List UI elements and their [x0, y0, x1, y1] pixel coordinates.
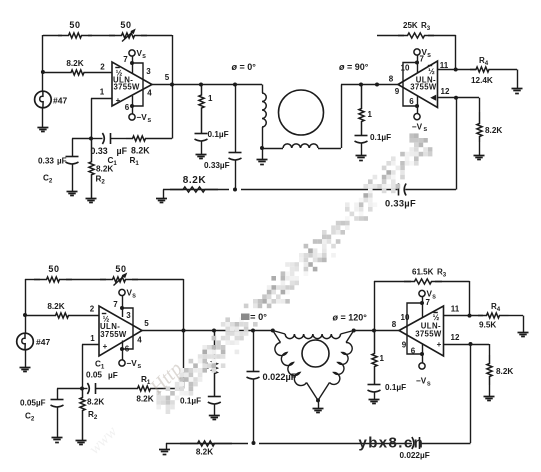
ground left end of rail A: [163, 190, 165, 199]
ground under R2 A: [86, 198, 97, 200]
pins 10-6 bracket D: [407, 303, 422, 354]
svg-text:µF: µF: [57, 157, 67, 166]
potentiometer 50 ohm (top): [109, 33, 147, 38]
pin 12 wire B: [444, 344, 490, 346]
motor M1 winding horizontal: [262, 148, 283, 150]
node at 0.33uF branch: [233, 83, 237, 87]
lamp #47 A: [35, 91, 52, 108]
node junction input: [41, 70, 45, 74]
svg-text:1: 1: [208, 94, 213, 103]
feedback vertical at output B: [183, 279, 185, 389]
capacitor C2 0.33uF A: [66, 156, 79, 158]
motor M2 delta winding left: [273, 331, 281, 343]
svg-text:8.2K: 8.2K: [87, 398, 104, 407]
svg-text:S: S: [427, 381, 431, 387]
resistor R1 8.2K series B: [131, 386, 157, 391]
capacitor 0.1uF C: [208, 396, 221, 398]
svg-text:1: 1: [90, 334, 95, 343]
svg-text:1: 1: [100, 88, 105, 97]
pin 7 lead and Vs supply C: [119, 289, 125, 295]
pin 11 output wire B: [444, 315, 484, 317]
svg-text:−V: −V: [412, 123, 423, 132]
ground left end of rail B: [166, 443, 168, 450]
node 1-ohm branch B: [359, 83, 363, 87]
feedback resistor R3 61.5K: [374, 281, 411, 283]
svg-text:0.1µF: 0.1µF: [385, 383, 406, 392]
ground after R4 B: [523, 316, 525, 332]
ground under 8.2K B: [474, 155, 485, 157]
svg-text:+: +: [103, 342, 108, 351]
ground under lamp bottom: [20, 367, 31, 369]
capacitor 0.1uF A: [195, 133, 208, 135]
svg-text:8.2K: 8.2K: [96, 165, 113, 174]
pin 12 wire: [438, 97, 480, 99]
svg-text:3755W: 3755W: [114, 82, 141, 91]
svg-text:2: 2: [100, 63, 105, 72]
svg-text:S: S: [424, 127, 428, 133]
svg-text:0.1µF: 0.1µF: [370, 133, 391, 142]
wire pin12 to lower rail B: [470, 344, 472, 443]
svg-text:8.2K: 8.2K: [47, 302, 64, 311]
capacitor 0.1uF D: [368, 384, 381, 386]
ground under lamp A: [37, 127, 48, 129]
svg-text:S: S: [432, 294, 436, 300]
capacitor 0.33uF to rail A: [229, 152, 242, 154]
svg-text:S: S: [132, 293, 136, 299]
wire pin 1 lead: [91, 98, 112, 100]
svg-text:µF: µF: [36, 399, 46, 408]
svg-text:12: 12: [451, 333, 460, 342]
wire delta to pin 8 B: [354, 330, 399, 332]
svg-text:6: 6: [125, 345, 130, 354]
wire pin 1 lead bottom: [82, 344, 99, 346]
svg-text:S: S: [142, 54, 146, 60]
svg-text:8.2K: 8.2K: [66, 59, 83, 68]
motor M2 delta winding right: [346, 331, 354, 343]
svg-text:9.5K: 9.5K: [479, 321, 496, 330]
svg-text:0.022µF: 0.022µF: [400, 451, 430, 460]
svg-text:50: 50: [69, 20, 80, 30]
svg-text:7: 7: [123, 55, 128, 64]
wire 0.022uF branch: [253, 331, 255, 372]
ground under 8.2K D: [484, 396, 495, 398]
op-amp U2A ULN-3755W triangle: [99, 306, 142, 356]
pin 6 lead and -Vs supply C: [122, 341, 124, 360]
svg-text:7: 7: [113, 300, 118, 309]
pins 10-6 bracket B: [403, 63, 417, 107]
lower rail circuit B: [166, 443, 248, 445]
svg-text:5: 5: [144, 319, 149, 328]
svg-text:+: +: [437, 340, 442, 349]
svg-text:ø = 90°: ø = 90°: [339, 62, 369, 72]
svg-text:S: S: [148, 118, 152, 124]
wire lamp to ground: [42, 108, 44, 127]
ground under 0.1uF A: [196, 154, 207, 156]
resistor R2 8.2K to ground A: [89, 139, 94, 199]
motor M1 rotor circle: [279, 90, 324, 135]
svg-text:8.2K: 8.2K: [196, 448, 213, 457]
svg-text:6: 6: [409, 97, 414, 106]
pin 7 lead and Vs supply D: [419, 290, 425, 296]
svg-text:9: 9: [402, 341, 407, 350]
feedback vertical at output: [172, 35, 174, 139]
wire 0.33uF coupling branch: [235, 85, 237, 153]
svg-text:S: S: [138, 364, 142, 370]
resistor R4 9.5K: [478, 313, 508, 318]
svg-text:6: 6: [411, 347, 416, 356]
ground under motor M1: [262, 148, 264, 160]
svg-text:7: 7: [426, 298, 431, 307]
svg-text:11: 11: [451, 305, 460, 314]
pin 6 lead and -Vs supply A: [132, 96, 134, 114]
svg-text:ø = 120°: ø = 120°: [333, 313, 368, 323]
svg-text:0.1µF: 0.1µF: [180, 397, 201, 406]
resistor 50 ohm fixed (top left): [58, 33, 92, 38]
svg-text:4: 4: [137, 336, 142, 345]
svg-text:50: 50: [120, 20, 131, 30]
svg-text:#47: #47: [53, 96, 67, 106]
pin 7 lead and Vs supply A: [129, 50, 135, 56]
svg-text:3755W: 3755W: [100, 330, 127, 339]
resistor 1 ohm damping C: [212, 331, 217, 397]
resistor 8.2K input bottom: [25, 313, 99, 318]
svg-text:8.2K: 8.2K: [496, 367, 513, 376]
svg-text:12: 12: [441, 87, 450, 96]
svg-text:11: 11: [440, 61, 449, 70]
svg-text:0.05: 0.05: [20, 399, 36, 408]
pins 3-4 output bracket A: [132, 63, 143, 106]
svg-text:+: +: [116, 96, 121, 105]
node rail junction: [233, 188, 237, 192]
svg-text:0.33: 0.33: [38, 157, 54, 166]
ground under 0.1uF D: [369, 399, 380, 401]
ground under delta motor: [318, 400, 320, 408]
wire C2 branch: [72, 138, 91, 140]
wire motor to pin 8: [341, 85, 343, 149]
svg-text:10: 10: [401, 64, 410, 73]
svg-text:8: 8: [392, 320, 397, 329]
resistor 1 ohm damping B: [359, 85, 364, 136]
pin 7 lead and Vs supply B: [414, 49, 420, 55]
op-amp U2B ULN-3755W triangle mirrored: [399, 306, 444, 356]
resistor R1 8.2K series A: [126, 136, 152, 141]
svg-text:3: 3: [146, 67, 151, 76]
wire lamp to ground B: [25, 350, 27, 367]
capacitor 0.1uF B: [355, 135, 368, 137]
svg-text:5: 5: [165, 73, 170, 82]
ground under C2 bottom: [52, 437, 63, 439]
svg-text:8.2K: 8.2K: [131, 146, 150, 156]
ground under R2 bottom: [76, 440, 87, 442]
svg-text:2: 2: [90, 305, 95, 314]
resistor R2 8.2K bottom: [80, 389, 85, 441]
svg-text:0.33: 0.33: [91, 146, 108, 156]
svg-text:25K: 25K: [403, 21, 418, 30]
svg-text:61.5K: 61.5K: [412, 268, 434, 277]
svg-text:3755W: 3755W: [415, 329, 442, 338]
resistor 1 ohm damping A: [199, 85, 204, 134]
svg-text:µF: µF: [108, 371, 118, 380]
resistor R4 12.4K: [470, 67, 495, 72]
resistor 8.2K rail A: [170, 187, 218, 192]
svg-text:ø = 0°: ø = 0°: [232, 62, 257, 72]
svg-text:9: 9: [395, 87, 400, 96]
wire C2 branch bottom: [57, 388, 82, 390]
motor M2 delta winding top: [271, 329, 275, 333]
svg-text:0.33µF: 0.33µF: [385, 199, 416, 209]
svg-text:8: 8: [389, 75, 394, 84]
capacitor 0.022uF series rail: [412, 437, 414, 449]
resistor 8.2K input A: [43, 70, 112, 75]
svg-text:0.022µF: 0.022µF: [263, 372, 297, 382]
feedback resistor R3 25K: [377, 35, 404, 37]
svg-text:1: 1: [368, 110, 373, 119]
node rail junction B: [252, 441, 256, 445]
lamp #47 bottom: [17, 333, 34, 350]
potentiometer 50 ohm (bottom): [100, 277, 138, 282]
svg-text:8.2K: 8.2K: [485, 126, 502, 135]
svg-text:−V: −V: [127, 359, 138, 368]
svg-text:0.1µF: 0.1µF: [208, 130, 229, 139]
node 0.022uF branch: [251, 329, 255, 333]
resistor 8.2K pin12 bottom: [489, 344, 491, 355]
svg-text:1: 1: [380, 354, 385, 363]
svg-text:12.4K: 12.4K: [471, 76, 493, 85]
lower rail circuit A: [163, 189, 229, 191]
svg-text:6: 6: [125, 103, 130, 112]
svg-text:50: 50: [115, 264, 126, 274]
op-amp U1A ULN-3755W triangle: [112, 62, 152, 106]
pin 5 output wire A: [152, 84, 262, 86]
resistor 8.2K pin12 to ground: [479, 98, 481, 112]
ground under 0.1uF C: [209, 415, 220, 417]
svg-text:−V: −V: [137, 113, 148, 122]
svg-text:0.33µF: 0.33µF: [204, 161, 230, 170]
wire top feedback rail circuit B: [25, 279, 40, 281]
svg-text:0.05: 0.05: [86, 371, 102, 380]
capacitor C2 0.05uF bottom: [51, 399, 64, 401]
pins 3-4 bracket C: [122, 308, 133, 349]
resistor 50 ohm fixed (bottom): [34, 277, 72, 282]
svg-text:−V: −V: [416, 377, 427, 386]
mosaic watermark band: [156, 133, 432, 414]
pin 11 output wire: [438, 69, 477, 71]
capacitor 0.33uF series rail: [398, 184, 400, 196]
svg-text:8.2K: 8.2K: [136, 395, 153, 404]
node R3 and 1-ohm branch D: [372, 329, 376, 333]
wire top feedback rail circuit A: [43, 35, 62, 37]
pin 5 output wire B: [142, 330, 273, 332]
resistor 8.2K rail B: [180, 441, 232, 446]
svg-text:4: 4: [147, 89, 152, 98]
ground under C2 A: [67, 191, 78, 193]
capacitor C1 0.33uF series A: [102, 133, 104, 144]
feedback lower wire C1 R1 bottom: [82, 388, 88, 390]
capacitor 0.022uF shunt: [247, 371, 260, 373]
node R3 feedback B: [375, 83, 379, 87]
svg-text:8.2K: 8.2K: [183, 175, 207, 186]
dark mosaic block over phi label: [241, 314, 250, 321]
pin 6 lead and -Vs supply D: [422, 343, 424, 363]
wire left vertical to lamp B: [25, 279, 27, 333]
feedback lower wire C1 R1: [91, 138, 103, 140]
motor M1 two-phase winding vertical: [262, 85, 264, 94]
svg-text:S: S: [427, 53, 431, 59]
motor M2 rotor circle: [302, 340, 329, 367]
svg-text:µF: µF: [117, 146, 128, 156]
svg-text:50: 50: [48, 264, 59, 274]
svg-text:3: 3: [126, 311, 131, 320]
ground under 0.1uF B: [356, 155, 367, 157]
wire left vertical to lamp: [42, 35, 44, 91]
node 1-ohm branch C: [212, 329, 216, 333]
wire pin12 to lower rail: [456, 98, 458, 190]
pin 6 lead and -Vs supply B: [417, 96, 419, 114]
svg-text:#47: #47: [36, 337, 50, 347]
ground after R4: [517, 70, 519, 89]
node junction input B: [23, 313, 27, 317]
svg-text:ybx8.cn: ybx8.cn: [359, 435, 425, 452]
svg-text:3755W: 3755W: [410, 82, 437, 91]
node at 1-ohm branch: [199, 83, 203, 87]
op-amp U1B ULN-3755W triangle mirrored: [398, 61, 438, 108]
capacitor C1 0.05uF series B: [87, 383, 89, 394]
svg-text:10: 10: [401, 313, 410, 322]
resistor 1 ohm damping D: [372, 331, 377, 385]
